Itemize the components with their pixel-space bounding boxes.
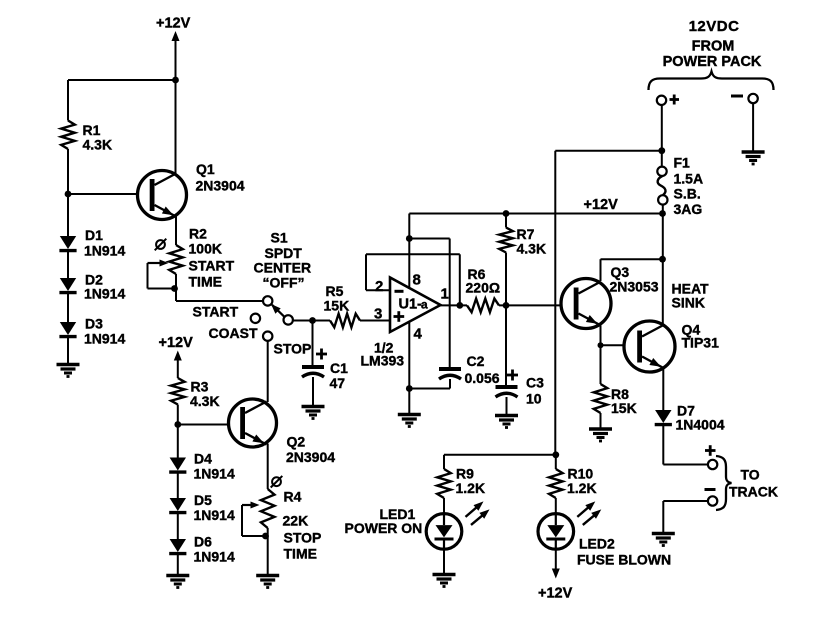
op-amp plus sign <box>394 315 405 318</box>
wire LED2 to +12V arrow <box>555 549 557 571</box>
resistor R6 <box>467 299 499 313</box>
diode D2 <box>60 278 76 291</box>
switch contact STOP <box>263 332 272 341</box>
wire C1 to ground <box>312 377 314 406</box>
switch common contact <box>284 315 293 324</box>
resistor R7 <box>499 228 513 253</box>
ground below R8 <box>589 427 612 430</box>
wire - track to ground <box>663 500 708 502</box>
capacitor C1 <box>302 365 324 369</box>
R4 wiper arrow <box>242 504 253 506</box>
node Q1 base junction <box>65 191 72 198</box>
transistor Q1 <box>138 171 187 220</box>
svg-text:FUSE BLOWN: FUSE BLOWN <box>577 552 671 568</box>
svg-text:4.3K: 4.3K <box>190 393 220 409</box>
svg-text:C1: C1 <box>330 360 348 376</box>
wire op-amp output <box>441 304 468 306</box>
resistor R3 <box>171 378 185 405</box>
wire LED branch horizontal <box>444 454 556 456</box>
capacitor C2 <box>439 367 461 371</box>
wire Q3 emitter down <box>600 326 602 385</box>
svg-text:D4: D4 <box>194 451 212 467</box>
svg-text:+12V: +12V <box>584 197 619 213</box>
terminal - track <box>708 496 717 505</box>
label - track <box>705 488 716 491</box>
svg-text:Q2: Q2 <box>287 434 306 450</box>
svg-text:8: 8 <box>413 272 421 289</box>
wire top-left horizontal <box>68 79 176 81</box>
svg-text:D5: D5 <box>194 492 212 508</box>
op-amp U1-a triangle <box>390 278 441 333</box>
wire R7 leads <box>505 214 507 228</box>
svg-text:LED2: LED2 <box>579 536 615 552</box>
ground below pin 4 <box>398 413 421 416</box>
diode D7 <box>655 410 671 423</box>
svg-text:47: 47 <box>330 375 346 391</box>
ground below D3 <box>57 363 80 366</box>
svg-text:COAST: COAST <box>209 325 258 341</box>
svg-text:C3: C3 <box>526 375 544 391</box>
svg-text:TO: TO <box>741 467 760 483</box>
node Q3 emitter junction <box>598 342 604 348</box>
node R2 wiper tie <box>171 285 178 292</box>
wire bypass branch to C2 <box>409 238 449 240</box>
svg-text:1.2K: 1.2K <box>456 480 486 496</box>
node fuse rail junction <box>659 210 666 217</box>
svg-text:+12V: +12V <box>538 586 573 602</box>
ground below LED1 <box>433 573 456 576</box>
ground below C1 <box>302 405 325 408</box>
svg-text:U1-: U1- <box>399 297 423 313</box>
svg-text:1N914: 1N914 <box>194 507 235 523</box>
LED LED1 <box>426 514 462 550</box>
wire Q4 emitter down <box>662 369 664 411</box>
svg-text:FROM: FROM <box>692 39 735 55</box>
supply arrow +12V mid <box>177 357 179 378</box>
diode D6 <box>170 539 186 552</box>
terminal + power pack <box>657 96 666 105</box>
wire - terminal to ground <box>752 103 754 151</box>
svg-text:1N914: 1N914 <box>194 466 235 482</box>
transistor Q2 <box>229 399 277 447</box>
label + power pack <box>670 98 680 101</box>
op-amp minus sign <box>395 290 404 293</box>
svg-text:1N914: 1N914 <box>194 549 235 565</box>
capacitor C3 <box>496 385 518 389</box>
wire Q3 emitter to Q4 base <box>601 344 638 346</box>
wire R4 to ground <box>267 528 269 575</box>
resistor R5 <box>330 314 360 328</box>
node pin4 ground junction <box>406 385 413 392</box>
svg-text:+12V: +12V <box>159 335 194 351</box>
transistor Q3 <box>561 279 611 329</box>
svg-text:POWER ON: POWER ON <box>345 520 423 536</box>
svg-text:2N3053: 2N3053 <box>610 279 659 295</box>
svg-text:10: 10 <box>526 391 542 407</box>
wire R3 to D4 <box>177 405 179 458</box>
svg-text:CENTER: CENTER <box>254 260 312 276</box>
brace over power pack <box>649 72 774 91</box>
fuse F1 <box>657 167 666 176</box>
svg-text:2N3904: 2N3904 <box>196 178 245 194</box>
svg-text:+12V: +12V <box>156 16 191 32</box>
wire R9 top lead <box>443 455 445 469</box>
svg-text:D1: D1 <box>85 227 103 243</box>
svg-text:1N914: 1N914 <box>84 331 125 347</box>
wire C3 top lead <box>505 305 507 385</box>
wire R10 top lead <box>555 455 557 469</box>
R4 wiper loop wire <box>241 505 243 536</box>
wire Q2 emitter to R4 <box>267 444 269 490</box>
node LED branch junction <box>552 451 559 458</box>
svg-text:0.056: 0.056 <box>465 370 500 386</box>
wire +12V rail <box>409 213 662 215</box>
diode D3 <box>60 322 76 335</box>
wire fuse to rail and collectors <box>662 205 664 325</box>
wire R8 to ground <box>600 413 602 429</box>
svg-text:1N4004: 1N4004 <box>676 417 725 433</box>
svg-text:15K: 15K <box>324 298 350 314</box>
ground below C3 <box>495 414 518 417</box>
node R7 top junction <box>503 210 510 217</box>
wire R1 top lead <box>67 80 69 121</box>
svg-text:TIME: TIME <box>189 274 222 290</box>
wire R6 to Q3 base <box>499 304 572 306</box>
svg-text:4.3K: 4.3K <box>517 241 547 257</box>
svg-text:LM393: LM393 <box>361 353 405 369</box>
svg-text:15K: 15K <box>611 400 637 416</box>
resistor R4 (pot) <box>261 489 275 528</box>
wire Q1 emitter to R2 <box>175 216 177 245</box>
ground below D6 <box>166 574 189 577</box>
ground below - track <box>652 532 675 535</box>
svg-text:SINK: SINK <box>672 295 705 311</box>
wire pin 4 down <box>408 322 410 414</box>
resistor R9 <box>437 469 451 498</box>
node pin8 bypass junction <box>406 235 413 242</box>
svg-text:C2: C2 <box>467 353 485 369</box>
resistor R1 <box>61 121 75 150</box>
node R7 bottom junction <box>503 302 510 309</box>
resistor R2 (pot) <box>169 245 183 274</box>
wire C1 top lead <box>312 321 314 366</box>
resistor R10 <box>549 469 563 498</box>
terminal - power pack <box>748 94 757 103</box>
brace TO TRACK <box>716 456 732 510</box>
wire switch common to R5 <box>293 320 330 322</box>
svg-text:STOP: STOP <box>274 341 312 357</box>
svg-text:1N914: 1N914 <box>84 286 125 302</box>
svg-text:1.5A: 1.5A <box>674 171 704 187</box>
node Q3 collector junction <box>659 256 666 263</box>
svg-text:220Ω: 220Ω <box>466 280 501 296</box>
wire Q1 base <box>68 193 151 195</box>
svg-text:TIP31: TIP31 <box>682 335 720 351</box>
wire C2 bottom to pin4 <box>409 388 450 390</box>
svg-text:START: START <box>189 258 235 274</box>
node junction at Q1 collector rail <box>172 77 179 84</box>
svg-text:3: 3 <box>374 306 382 323</box>
wire R9 to LED1 <box>443 498 445 514</box>
svg-text:TIME: TIME <box>284 546 317 562</box>
LED LED2 <box>538 514 574 550</box>
transistor Q4 <box>624 321 675 372</box>
svg-text:D6: D6 <box>194 534 212 550</box>
svg-text:1: 1 <box>441 286 449 303</box>
feedback wire pin2 to output <box>365 254 367 290</box>
diode D4 <box>170 458 186 471</box>
svg-text:POWER PACK: POWER PACK <box>663 54 762 70</box>
wire D4 to D5 <box>177 472 179 498</box>
svg-text:2: 2 <box>375 278 383 295</box>
wire D5 to D6 <box>177 513 179 539</box>
svg-text:TRACK: TRACK <box>729 484 778 500</box>
R2 wiper arrow <box>148 262 162 264</box>
svg-text:D3: D3 <box>85 316 103 332</box>
svg-text:a: a <box>421 298 428 312</box>
svg-text:4.3K: 4.3K <box>83 137 113 153</box>
wire Q2 base <box>178 424 241 426</box>
ground below R4 <box>256 574 279 577</box>
wire Q1 collector <box>175 80 177 175</box>
svg-text:F1: F1 <box>674 155 691 171</box>
svg-text:4: 4 <box>414 326 423 343</box>
wire R2 to switch START contact <box>175 274 177 301</box>
svg-text:STOP: STOP <box>284 530 322 546</box>
switch S1 arm <box>272 305 285 317</box>
svg-text:1.2K: 1.2K <box>567 480 597 496</box>
wire pin 8 to +12V rail <box>408 214 410 290</box>
node output feedback junction <box>456 302 463 309</box>
node pre-fuse junction <box>658 147 665 154</box>
node Q2 base junction <box>174 421 181 428</box>
svg-text:12VDC: 12VDC <box>689 18 740 35</box>
svg-text:22K: 22K <box>283 513 309 529</box>
svg-text:Q1: Q1 <box>196 161 215 177</box>
svg-text:2N3904: 2N3904 <box>286 449 335 465</box>
wire pin 2 <box>366 289 390 291</box>
svg-text:100K: 100K <box>189 241 222 257</box>
wire R5 to pin 3 <box>360 320 390 322</box>
wire R10 to LED2 <box>555 498 557 514</box>
label - power pack <box>731 95 743 98</box>
wire D7 to + track terminal <box>662 425 664 465</box>
svg-text:“OFF”: “OFF” <box>263 275 305 291</box>
supply arrow +12V top <box>175 38 177 80</box>
wire LED1 to ground <box>443 549 445 574</box>
svg-text:R2: R2 <box>189 226 207 242</box>
wire C3 to ground <box>506 397 508 415</box>
wire Q2 collector to STOP <box>267 341 269 402</box>
ground below - terminal <box>742 150 765 153</box>
wire D3 to ground <box>67 337 69 364</box>
trimmer symbol R4 <box>272 477 281 486</box>
node C1 branch <box>309 317 316 324</box>
label + track <box>705 449 716 452</box>
wire pre-fuse branch <box>554 151 556 455</box>
diode D5 <box>170 498 186 511</box>
wire R1 to D1 <box>67 149 69 236</box>
wire + terminal to fuse <box>661 105 663 167</box>
trimmer symbol R2 <box>156 240 165 249</box>
svg-text:START: START <box>193 304 239 320</box>
wire D1 to D2 <box>67 251 69 278</box>
svg-text:S1: S1 <box>271 230 288 246</box>
svg-text:R4: R4 <box>284 489 302 505</box>
switch contact COAST <box>251 314 260 323</box>
terminal + track <box>708 460 717 469</box>
switch contact START <box>263 296 272 305</box>
diode D1 <box>60 236 76 249</box>
svg-text:S.B.: S.B. <box>674 186 701 202</box>
wire D6 to ground <box>177 554 179 575</box>
node R4 wiper tie <box>262 533 269 540</box>
svg-text:3AG: 3AG <box>674 201 703 217</box>
R2 wiper loop wire <box>147 263 149 289</box>
wire D2 to D3 <box>67 293 69 322</box>
wire Q3 collector <box>600 259 602 281</box>
resistor R8 <box>594 384 608 413</box>
svg-text:1N914: 1N914 <box>84 243 125 259</box>
